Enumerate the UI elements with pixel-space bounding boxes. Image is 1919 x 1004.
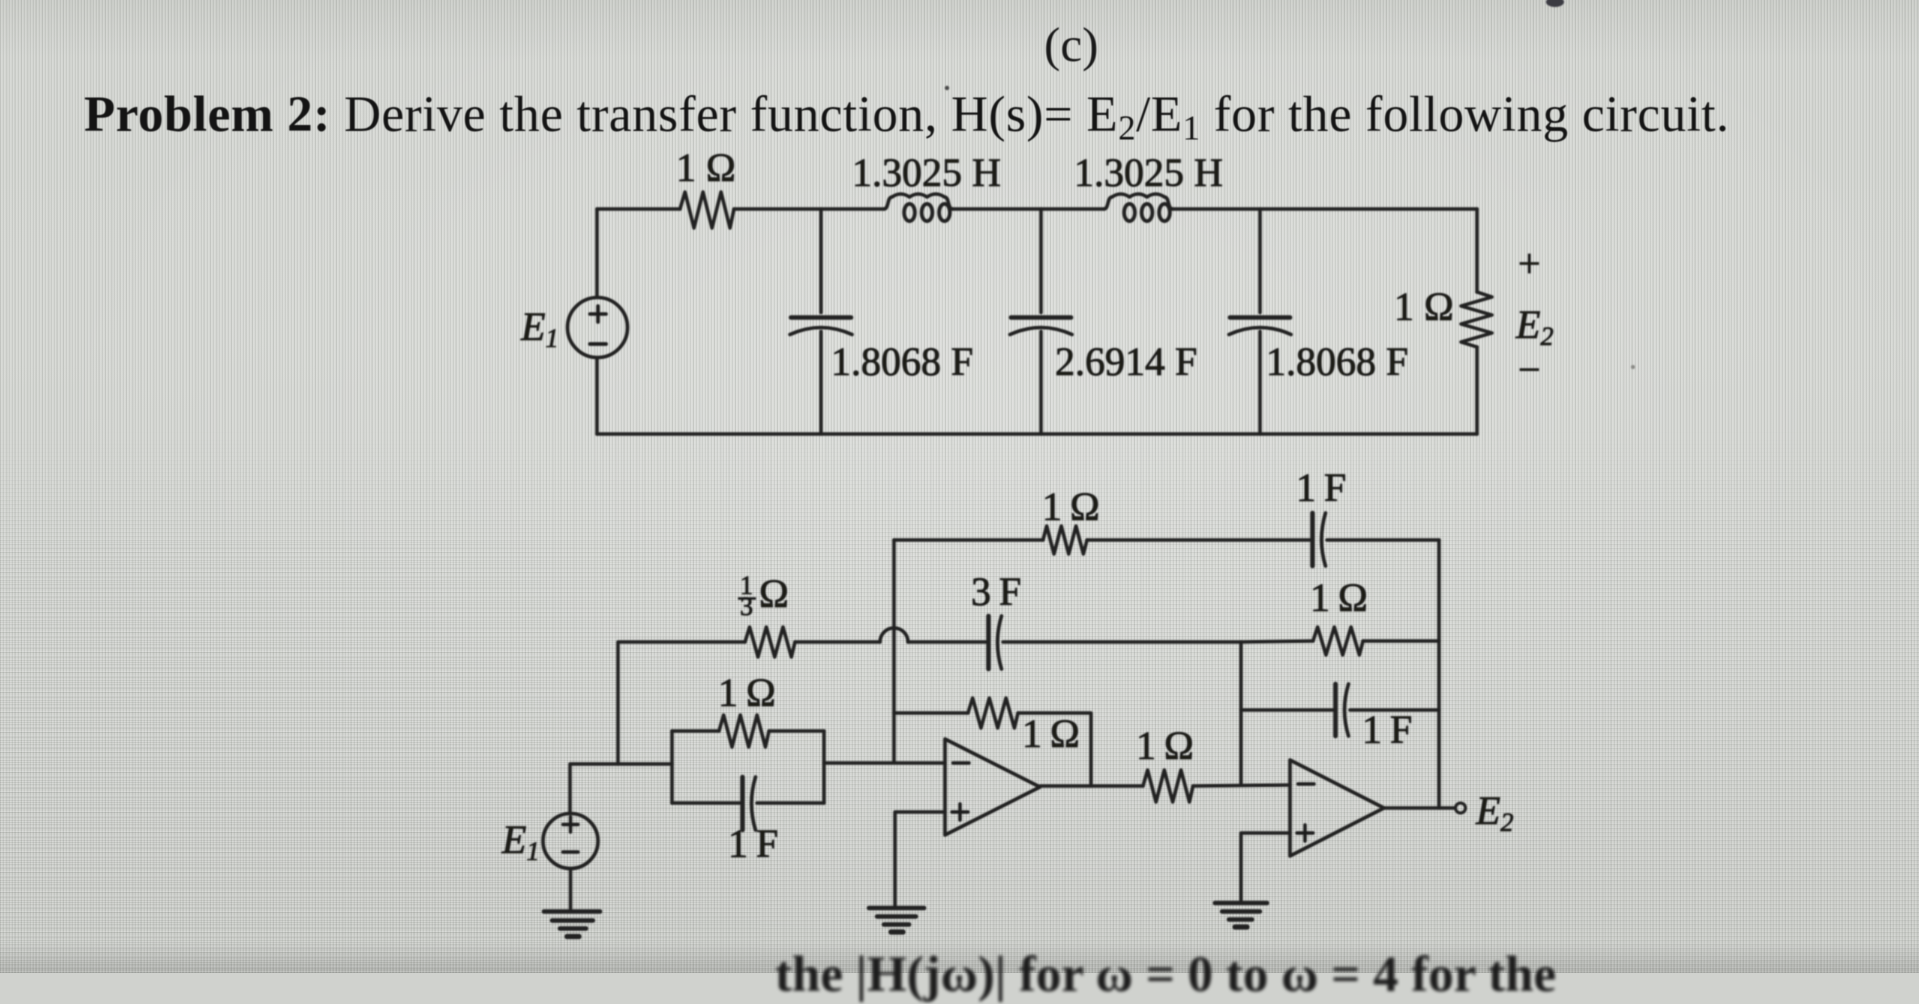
svg-text:1.3025 H: 1.3025 H [1074,150,1223,195]
svg-text:1 Ω: 1 Ω [1310,575,1368,620]
wire: E1 top lead up and input node [570,764,672,814]
wire: C4 to junction at x=1241 [1003,640,1241,644]
ground G2 under U1 [869,906,924,911]
svg-text:1 Ω: 1 Ω [1042,484,1100,529]
wire: block output to op-amp U1 inverting input [824,761,945,765]
E1 lower source polarity marks [563,817,578,832]
fraction bar of 1/3 ohm label [738,597,756,600]
E1 top source polarity marks [590,306,606,322]
wire: R2 to hop [795,640,880,644]
svg-text:+: + [1518,241,1541,286]
wire: node V1 vertical (top feedback corner down to inverting input) [892,540,896,762]
wire: load bottom to bottom rail [1475,347,1479,434]
wire: U1 + input to ground stem [895,812,945,907]
svg-text:1 F: 1 F [728,821,778,866]
source E1 (lower) circle [543,814,598,869]
svg-text:E1: E1 [501,817,539,866]
capacitor C1 plates [791,315,851,320]
svg-text:E2: E2 [1475,788,1513,837]
wire: R7 to right rail [1363,639,1439,643]
wire: U2 output to terminal [1384,806,1455,810]
parallel block: left edge [670,731,674,803]
svg-text:−: − [1518,347,1541,392]
faint speck right side [1631,365,1635,369]
svg-text:1 Ω: 1 Ω [718,670,776,715]
resistor R2 1/3 ohm [745,627,795,657]
capacitor C3 plates [1230,315,1290,320]
capacitor C3 1.8068F top lead [1258,209,1262,313]
wire: U2 + input to ground stem [1241,833,1290,902]
svg-text:1 Ω: 1 Ω [1394,284,1454,329]
resistor R6 1 ohm (top feedback) [1043,526,1087,554]
capacitor C5 1F (block bottom) plates [740,777,745,830]
resistor R7 1 ohm (to output rail) [1313,627,1363,655]
svg-text:1 Ω: 1 Ω [1022,711,1080,756]
ground G1 under E1 [544,909,600,914]
resistor R3 1 ohm (block top) [719,715,769,747]
capacitor C8 1F (right branch) plates [1333,684,1338,736]
wire: R4 to output drop [1018,713,1091,786]
resistor R4 1 ohm (U1 feedback) [968,698,1018,728]
capacitor C7 1F (top feedback) plates [1310,513,1315,566]
capacitor C1 bottom lead [819,332,823,435]
wire: R1 to node A (cap C1 tap) [734,207,884,211]
label R2 value (1/3 ohm fraction) [740,571,753,621]
wire: feedback resistor branch y=713 [894,711,968,715]
svg-text:1 Ω: 1 Ω [676,145,736,190]
svg-text:Ω: Ω [759,571,789,616]
caption (c) [1044,16,1098,73]
U1 minus symbol [953,761,969,764]
svg-text:1.3025 H: 1.3025 H [852,150,1001,195]
svg-text:1 Ω: 1 Ω [1136,723,1194,768]
svg-text:E2: E2 [1515,302,1553,351]
op-amp U1 triangle [945,739,1040,835]
capacitor C2 plates [1011,315,1071,320]
wire: hop to capacitor C4 [908,640,986,644]
ground G3 under U2 [1215,901,1267,906]
wire: node vertical x=1241 (from y=642 wire down to U2 inverting input) [1239,642,1243,785]
bottom cropped text line [775,946,1556,1004]
capacitor C2 bottom lead [1039,332,1043,435]
svg-text:1 F: 1 F [1362,707,1412,752]
terminal E2 open circle [1456,803,1466,813]
wire: branch y=710 from node x=1241 to rail with C8 [1241,708,1334,712]
wire: E1 bottom lead to ground [569,869,573,912]
svg-text:E1: E1 [520,304,558,353]
resistor R5 1 ohm (between op-amps) [1143,770,1193,802]
op-amp input polarity symbols [563,306,1314,852]
inductor L1 1.3025H [884,194,953,209]
dark blob top edge [1546,0,1564,7]
U2 minus symbol [1298,782,1314,785]
svg-text:3: 3 [740,592,753,621]
wire: vertical riser from input node to 1/3 ohm wire [618,642,745,764]
wire: junction to resistor R7 [1241,641,1313,642]
parallel block bottom side wires [672,801,824,805]
wire: L1 to node B (cap C2 tap) [953,207,1105,211]
svg-text:1.8068 F: 1.8068 F [831,339,973,384]
wire: top-left vertical from top wire to source E1 top [595,209,599,297]
wire: top feedback rail y=540 with R6 and C6 [894,538,1043,542]
wire: C7 to right rail corner [1327,538,1439,542]
wire hop over vertical at node V1 [880,628,908,642]
svg-text:1 F: 1 F [1296,465,1346,510]
inductor L2 1.3025H [1104,194,1173,209]
wire: R5 to U2 inverting input [1193,785,1290,786]
svg-text:2.6914 F: 2.6914 F [1055,339,1197,384]
wire: top rail segment E1 to resistor R1 [597,207,680,211]
svg-text:3 F: 3 F [971,569,1021,614]
U2 plus symbol [1297,825,1313,841]
parallel block top side wires [672,729,824,733]
wire: right rail vertical [1437,540,1441,808]
source E1 (top circuit) circle [568,298,628,358]
dust speck below (c) [945,86,949,90]
capacitor C4 3F plates [986,616,991,669]
wire: bottom rail of ladder [597,432,1477,436]
problem title text [84,86,1729,144]
wire: U1 output across to U2 inverting input [1040,784,1143,788]
capacitor C1 1.8068F top lead [819,209,823,313]
resistor RL 1ohm (load, vertical) [1461,292,1492,347]
svg-text:1.8068 F: 1.8068 F [1266,339,1408,384]
wire: E1 bottom to bottom rail [595,358,599,434]
capacitor C2 2.6914F top lead [1039,209,1043,313]
wire: C8 to right rail [1350,708,1439,712]
wire: R6 to capacitor C7 [1087,538,1311,542]
wire: L2 to top-right corner [1173,207,1478,211]
capacitor C3 bottom lead [1258,332,1262,435]
wire: top-right vertical down to load [1475,209,1479,292]
op-amp U2 triangle [1290,760,1384,856]
U1 plus symbol [952,804,968,820]
parallel block: right edge [822,731,826,803]
resistor R1 1ohm (series, top) [680,192,734,228]
